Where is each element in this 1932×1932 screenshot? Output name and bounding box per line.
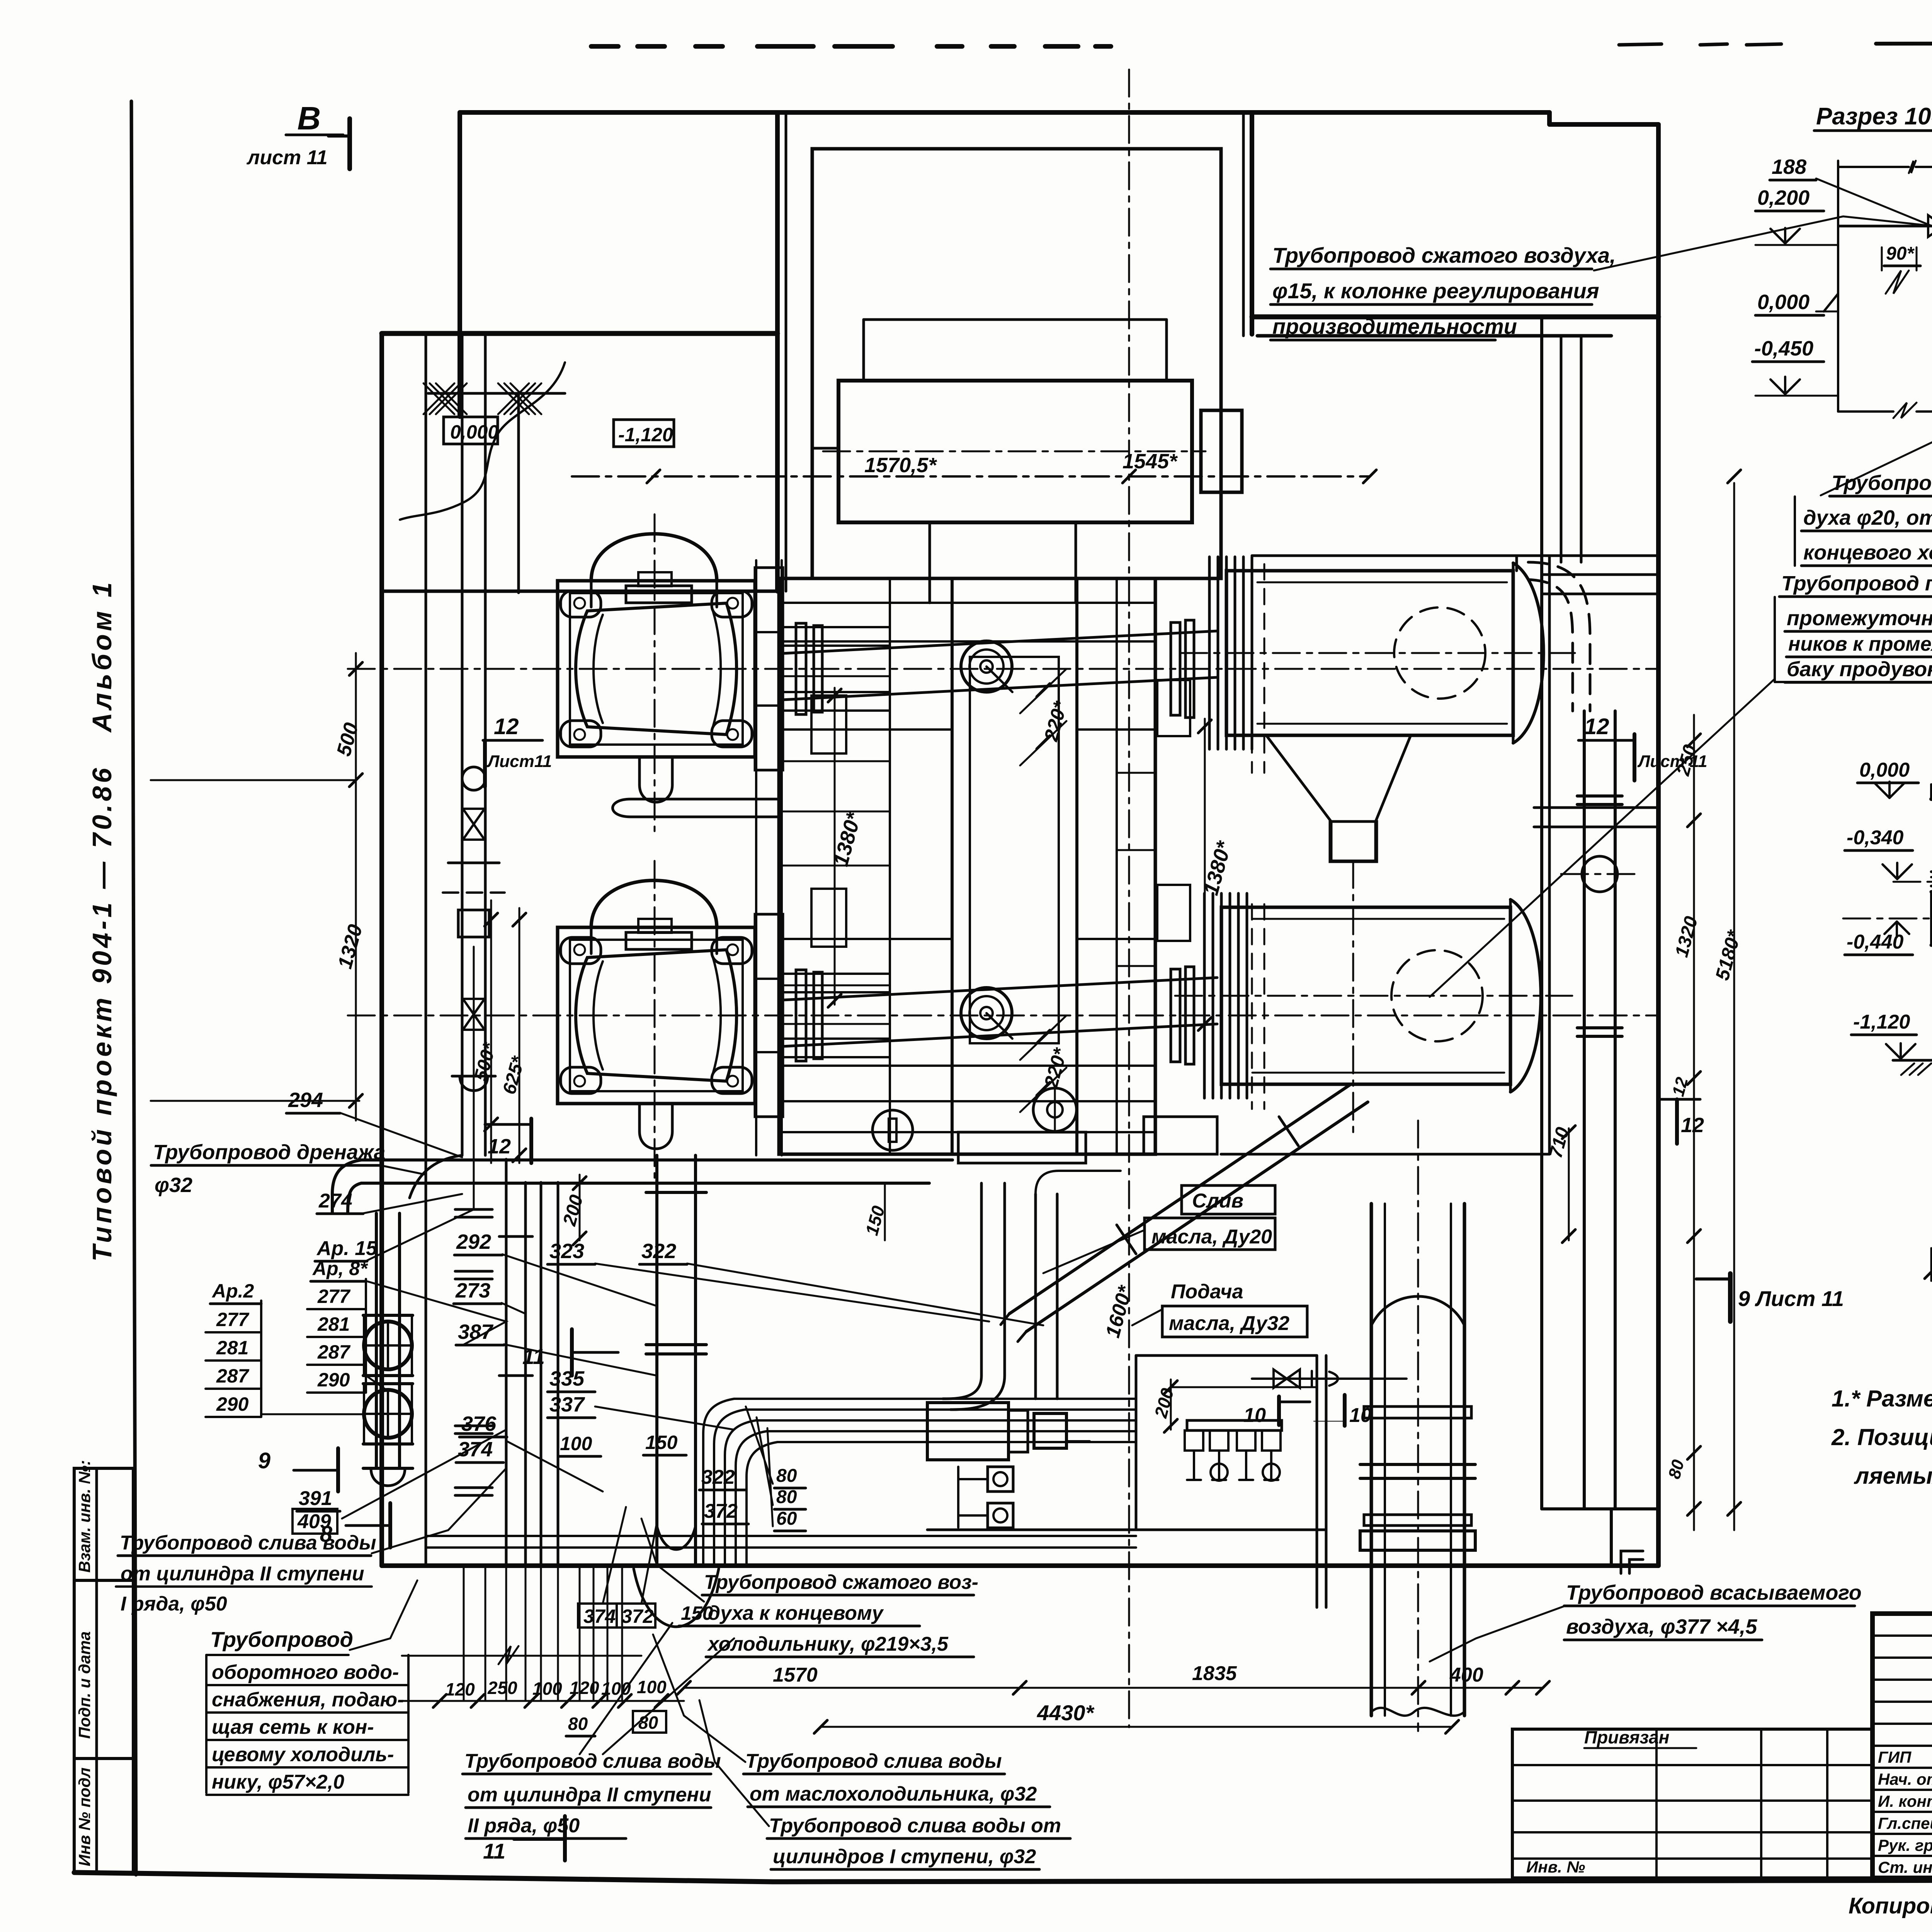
attached table привязан xyxy=(1512,1729,1872,1878)
cylinder 2 vertical centerline xyxy=(654,861,656,1178)
hatch square corner 2 xyxy=(498,383,529,414)
svg-text:294: 294 xyxy=(288,1088,323,1112)
svg-text:80: 80 xyxy=(776,1487,797,1507)
dim 500* / 625* cylinder2 xyxy=(490,900,492,1163)
left dim vertical line xyxy=(355,653,357,1121)
crankcase small covers xyxy=(811,696,846,753)
bottom wall pipe run xyxy=(426,1535,1136,1537)
section mark B top-left xyxy=(347,119,352,169)
svg-text:Разрез 10-10: Разрез 10-10 xyxy=(1816,103,1932,130)
svg-text:духа φ20, отбор после: духа φ20, отбор после xyxy=(1803,506,1932,529)
main horizontal pipe run lower-left xyxy=(361,1158,952,1162)
svg-text:Подп. и дата: Подп. и дата xyxy=(75,1631,94,1739)
compressor cylinder 1 dome xyxy=(591,534,717,581)
big center vertical pipe with flanges xyxy=(655,1155,658,1566)
section mark 12 left lower xyxy=(485,1123,531,1126)
10-10 top line with break xyxy=(1838,166,1909,168)
svg-text:1570: 1570 xyxy=(773,1664,818,1686)
leaders from 374/372 box xyxy=(603,1507,626,1604)
oil pump coupling xyxy=(1066,1419,1090,1422)
svg-text:Взам. инв. №:: Взам. инв. №: xyxy=(75,1460,94,1573)
bay centerline vertical xyxy=(1128,70,1130,578)
suction pipe bottom break xyxy=(1371,1708,1464,1716)
svg-text:Ст. инж: Ст. инж xyxy=(1878,1858,1932,1876)
svg-text:оборотного водо-: оборотного водо- xyxy=(212,1661,399,1684)
svg-text:4430*: 4430* xyxy=(1037,1701,1095,1725)
svg-text:Нач. отд: Нач. отд xyxy=(1878,1770,1932,1788)
piston rod 1 xyxy=(783,631,1217,653)
rod big flange circles 2 xyxy=(961,988,1012,1039)
svg-text:1545*: 1545* xyxy=(1122,450,1178,473)
plan top-right corner step xyxy=(1547,112,1552,124)
svg-text:Трубопровод сжатого воз-: Трубопровод сжатого воз- xyxy=(1832,471,1932,495)
annotation A3 leader to vessel xyxy=(1430,679,1775,997)
section mark 8 left xyxy=(388,1503,392,1548)
svg-text:промежуточных холодиль-: промежуточных холодиль- xyxy=(1787,607,1932,630)
section mark 11 upper xyxy=(570,1329,574,1376)
compressor cylinder 1 top hatch cover xyxy=(626,586,692,603)
left pipes flange ticks xyxy=(455,1208,492,1211)
sheet frame bottom border line xyxy=(74,1872,1932,1882)
big flanged valve circle 1 xyxy=(364,1321,412,1369)
vessel2 diagonal blowdown pipe xyxy=(1009,1084,1351,1314)
left dim extension lines xyxy=(348,668,356,670)
svg-text:Слив: Слив xyxy=(1192,1190,1243,1212)
compressor cylinder 2 bottom neck xyxy=(638,1104,641,1131)
section mark 11 lower xyxy=(563,1816,567,1861)
crankcase internal lines xyxy=(779,602,1155,604)
plan inner wall line left y1530 xyxy=(382,590,777,593)
cylinder 1 axis centerline xyxy=(348,668,1658,670)
svg-text:Трубопровод всасываемого: Трубопровод всасываемого xyxy=(1566,1581,1862,1604)
pipe bundle left elbows xyxy=(703,1399,734,1566)
cylinder 2 pad bolts xyxy=(574,944,585,955)
left piping extra verticals xyxy=(540,1182,543,1566)
svg-text:100: 100 xyxy=(560,1433,592,1454)
10-10 grid vertical lines xyxy=(1837,161,1839,412)
annotation A12 leader xyxy=(653,1634,745,1762)
svg-text:баку продувок φ25: баку продувок φ25 xyxy=(1787,658,1932,681)
svg-text:400: 400 xyxy=(1449,1664,1483,1686)
right duct flanges xyxy=(1577,794,1622,798)
label 409 boxed xyxy=(293,1509,337,1534)
compressor cylinder 2 mounting frame xyxy=(558,927,755,1104)
svg-text:ГИП: ГИП xyxy=(1878,1748,1912,1766)
bay inner double verticals xyxy=(785,112,787,591)
svg-text:ников к промежуточному: ников к промежуточному xyxy=(1788,633,1932,655)
svg-text:Копировал Полищук .: Копировал Полищук . xyxy=(1849,1893,1932,1918)
armature leaders xyxy=(367,1281,506,1345)
vessel1 cone axis xyxy=(1352,861,1354,1132)
10-10 bottom line xyxy=(1838,410,1893,413)
svg-text:-0,450: -0,450 xyxy=(1754,337,1813,360)
svg-text:концевого холодильника: концевого холодильника xyxy=(1803,541,1932,564)
11-11 left pipe stub xyxy=(1931,890,1932,894)
compressor cylinder 2 body xyxy=(576,950,736,1081)
cylinder 1 pad bolts xyxy=(574,598,585,609)
svg-text:281: 281 xyxy=(216,1337,248,1359)
compressor cylinder 2 corner pads xyxy=(561,937,601,964)
crosshead guide rails cylinder 2 xyxy=(755,914,783,1117)
10-10 pipe horizontal xyxy=(1839,225,1932,228)
svg-text:Инв. №: Инв. № xyxy=(1526,1858,1585,1876)
left drain valve vertical pipe xyxy=(375,1213,378,1468)
svg-text:от маслохолодильника, φ32: от маслохолодильника, φ32 xyxy=(750,1783,1037,1805)
oil filters xyxy=(988,1467,1013,1492)
intercooler vessel 2 internal dashed circle xyxy=(1391,950,1483,1041)
plan left lower wall inner xyxy=(425,333,427,1566)
svg-text:Трубопровод сжатого воз-: Трубопровод сжатого воз- xyxy=(704,1571,978,1594)
right duct valve circle xyxy=(1582,856,1617,892)
right dim chain outer 5180 xyxy=(1733,483,1735,1530)
svg-text:масла, Ду32: масла, Ду32 xyxy=(1169,1312,1289,1335)
bottom dim line 4430 xyxy=(821,1726,1452,1728)
svg-text:120: 120 xyxy=(570,1678,599,1698)
receiver rect xyxy=(838,381,1192,522)
annotation φ15 leader to section 10-10 xyxy=(1594,216,1932,270)
svg-text:масла, Ду20: масла, Ду20 xyxy=(1151,1226,1272,1248)
svg-text:Инв № подл: Инв № подл xyxy=(75,1767,94,1866)
svg-text:щая сеть к кон-: щая сеть к кон- xyxy=(212,1716,374,1738)
annotation A13 leader xyxy=(699,1700,769,1826)
svg-text:10: 10 xyxy=(1349,1404,1372,1427)
dim 200 oil skid xyxy=(1170,1379,1172,1430)
svg-text:188: 188 xyxy=(1772,155,1806,179)
crankcase long guide channel xyxy=(755,560,757,1155)
suction pipe top break arc xyxy=(1371,1296,1464,1325)
cylinder 2 inner frame rect xyxy=(570,940,743,1091)
plan top wall xyxy=(460,110,1549,115)
label Слив масла Ду20 boxed xyxy=(1182,1185,1275,1214)
crankcase left small circle xyxy=(872,1110,913,1150)
top dim line 1570,5 / 1545 xyxy=(572,475,1370,478)
svg-text:391: 391 xyxy=(299,1487,332,1510)
cylinder 2 valve cap top xyxy=(638,919,672,933)
svg-text:Привязан: Привязан xyxy=(1584,1727,1669,1747)
svg-text:Лист11: Лист11 xyxy=(486,752,552,771)
rod flange pair 2 xyxy=(796,970,806,1061)
suction pipe main vertical xyxy=(1370,1204,1373,1716)
svg-text:277: 277 xyxy=(216,1309,250,1330)
svg-text:292: 292 xyxy=(456,1230,491,1253)
svg-text:372: 372 xyxy=(621,1605,654,1627)
svg-text:12: 12 xyxy=(1584,714,1609,739)
annotation A9 leader xyxy=(372,1468,506,1553)
10-10 leader to A2 annotation xyxy=(1821,417,1932,495)
oil manifold bar xyxy=(1187,1420,1282,1430)
svg-text:-0,440: -0,440 xyxy=(1847,931,1904,953)
crankcase bottom blocks xyxy=(958,1132,1086,1163)
svg-text:Гл.спец: Гл.спец xyxy=(1878,1814,1932,1832)
section mark 9 left xyxy=(336,1448,340,1492)
section marks 10 xyxy=(1277,1396,1281,1425)
svg-text:II ряда, φ50: II ряда, φ50 xyxy=(468,1815,580,1837)
annotation A15 leader xyxy=(1430,1605,1566,1662)
suction pipe couplings xyxy=(1364,1406,1471,1418)
compressor cylinder 2 dome xyxy=(591,881,717,928)
oil pump motor xyxy=(927,1403,1009,1460)
svg-text:322: 322 xyxy=(701,1466,735,1488)
cylinder 1 vertical centerline xyxy=(654,514,656,831)
svg-text:Трубопровод: Трубопровод xyxy=(210,1627,353,1651)
svg-text:-1,120: -1,120 xyxy=(618,424,673,446)
plan bottom wall xyxy=(382,1563,1658,1568)
11-11 ground line xyxy=(1893,1059,1932,1062)
svg-text:374: 374 xyxy=(583,1605,616,1627)
svg-text:337: 337 xyxy=(549,1393,585,1416)
valve column vertical pipe left xyxy=(461,336,464,1155)
receiver right flange box xyxy=(1201,410,1242,492)
plan bottom-right step xyxy=(1542,1507,1658,1510)
margin stamp box Подп. и дата xyxy=(74,1580,133,1759)
title block outer box xyxy=(1872,1614,1932,1878)
compressor cylinder 1 mounting frame xyxy=(558,581,755,757)
plan inner right wall xyxy=(1540,317,1543,1509)
vertical pipe 292 bundle xyxy=(505,1182,508,1566)
10-10 leader 188 to valve xyxy=(1816,179,1932,226)
right vertical duct pipe xyxy=(1583,711,1586,1509)
rod flange pair 1 xyxy=(796,623,806,714)
cylinder 1 inner frame rect xyxy=(570,593,743,745)
svg-text:2. Позиции оборудования и: 2. Позиции оборудования и комплектуемых … xyxy=(1831,1424,1932,1450)
svg-text:11: 11 xyxy=(483,1839,505,1863)
valve column fittings xyxy=(462,767,485,790)
level box -1,120 xyxy=(614,420,674,447)
svg-text:372: 372 xyxy=(704,1500,738,1522)
bottom dim line 1570/1835/400 xyxy=(684,1687,1543,1689)
dim line oil skid horizontal xyxy=(1171,1386,1317,1388)
svg-text:1.* Размеры для справок: 1.* Размеры для справок xyxy=(1832,1386,1932,1412)
vertical pipe pair from corridor band xyxy=(1560,336,1563,562)
svg-text:9: 9 xyxy=(258,1448,270,1473)
svg-text:воздуха, φ377 ×4,5: воздуха, φ377 ×4,5 xyxy=(1566,1615,1757,1638)
upper dim line with break below plan xyxy=(402,1655,641,1657)
svg-text:производительности: производительности xyxy=(1272,314,1517,338)
svg-text:I ряда, φ50: I ряда, φ50 xyxy=(121,1593,227,1615)
annotation A8 leader xyxy=(381,1165,426,1175)
svg-text:0,000: 0,000 xyxy=(1757,291,1810,314)
break wavy line upper-left xyxy=(400,362,565,520)
svg-text:322: 322 xyxy=(641,1240,676,1263)
svg-text:-0,340: -0,340 xyxy=(1847,827,1904,849)
svg-text:от цилиндра II ступени: от цилиндра II ступени xyxy=(468,1784,711,1806)
svg-text:ляемых Пензенским компрессор: ляемых Пензенским компрессорным заводом,… xyxy=(1854,1463,1932,1489)
intercooler vessel 1 shell lines xyxy=(1257,582,1507,583)
intercooler vessel 2 left flange stack xyxy=(1203,893,1206,1098)
crankcase center small circle xyxy=(1033,1088,1077,1131)
intercooler vessel 1 axis xyxy=(1180,652,1575,654)
svg-text:нику, φ57×2,0: нику, φ57×2,0 xyxy=(212,1771,344,1793)
bay inner chamber rect xyxy=(812,149,1221,578)
rod dim ticks 220 2 xyxy=(1037,1030,1050,1043)
right side horizontal pipes to wall xyxy=(1542,573,1658,576)
svg-text:90*: 90* xyxy=(1886,243,1915,264)
intercooler vessel 1 internal dashed circle xyxy=(1394,607,1485,699)
svg-text:Подача: Подача xyxy=(1171,1281,1243,1303)
svg-text:Ар. 15: Ар. 15 xyxy=(316,1237,378,1260)
plan inner wall line right y1438 xyxy=(1252,554,1658,557)
cylinder 2 body inner arcs xyxy=(594,961,603,1070)
section mark 12 right lower xyxy=(1658,1098,1700,1101)
svg-text:0,200: 0,200 xyxy=(1757,186,1810,209)
svg-text:Рук. гр.: Рук. гр. xyxy=(1878,1836,1932,1854)
section mark 9 Лист 11 xyxy=(1728,1274,1733,1321)
level box 0,000 xyxy=(444,417,498,444)
vessel1 top right pipe dashed bend xyxy=(1515,556,1518,571)
oil manifold blocks and bolts xyxy=(1185,1430,1203,1451)
svg-text:Трубопровод слива воды: Трубопровод слива воды xyxy=(120,1532,376,1554)
svg-text:Трубопровод слива воды от: Трубопровод слива воды от xyxy=(769,1815,1061,1837)
plan right wall xyxy=(1656,124,1661,1566)
svg-text:φ15, к колонке регулирования: φ15, к колонке регулирования xyxy=(1272,279,1599,303)
svg-text:290: 290 xyxy=(216,1393,249,1415)
svg-text:1835: 1835 xyxy=(1192,1662,1237,1685)
crankcase ribs xyxy=(779,675,890,677)
10-10 valve xyxy=(1928,215,1932,237)
cylinder 2 axis centerline xyxy=(348,1015,1658,1017)
svg-text:274: 274 xyxy=(318,1190,352,1212)
svg-text:120: 120 xyxy=(445,1679,475,1699)
svg-text:9 Лист 11: 9 Лист 11 xyxy=(1738,1286,1844,1311)
svg-text:духа к концевому: духа к концевому xyxy=(708,1602,884,1624)
center pipe bottom break arc xyxy=(657,1526,696,1549)
pipe 322 top elbow xyxy=(1036,1171,1059,1194)
10-10 break squiggle xyxy=(1886,270,1909,294)
intercooler vessel 2 body xyxy=(1221,907,1510,1084)
vertical pipe 323 xyxy=(980,1183,983,1376)
pipe bundle horizontal lines xyxy=(734,1398,1136,1400)
cylinder 1 body inner arcs xyxy=(594,615,603,723)
plan left lower wall outer xyxy=(379,333,384,1566)
intercooler vessel 1 left flange stack xyxy=(1208,557,1211,749)
intercooler vessel 2 axis xyxy=(1175,995,1572,997)
svg-text:290: 290 xyxy=(317,1369,350,1391)
right dim chain inner xyxy=(1693,715,1695,1530)
svg-text:80: 80 xyxy=(638,1713,658,1733)
svg-text:80: 80 xyxy=(776,1466,797,1486)
compressor cylinder 1 corner pads xyxy=(561,591,601,617)
svg-text:10: 10 xyxy=(1243,1404,1266,1427)
intercooler vessel 1 right head xyxy=(1513,563,1544,743)
oil skid boundary xyxy=(1136,1354,1317,1357)
svg-text:273: 273 xyxy=(455,1279,490,1302)
svg-text:И. контр: И. контр xyxy=(1878,1792,1932,1810)
svg-text:Типовой проект 904-1 — 70.8: Типовой проект 904-1 — 70.86 xyxy=(87,765,117,1262)
sheet frame top border line xyxy=(1876,43,1932,44)
plan wall band left horizontal xyxy=(382,331,777,336)
annotation A10 leader xyxy=(350,1580,417,1650)
11-11 top slab line xyxy=(1931,797,1932,801)
compressor cylinder 1 body xyxy=(576,603,736,735)
svg-text:250: 250 xyxy=(487,1678,517,1698)
plan bay column right xyxy=(1250,112,1254,334)
rod big flange circles 1 xyxy=(961,641,1012,692)
intercooler vessel 1 body xyxy=(1226,571,1513,735)
svg-text:Трубопровод продувки от: Трубопровод продувки от xyxy=(1781,572,1932,595)
compressor cylinder 1 bottom neck xyxy=(638,757,641,785)
receiver inner step left xyxy=(812,447,838,450)
big flanged valve circle 2 xyxy=(364,1390,412,1438)
elbow from valve column to drain xyxy=(410,1155,462,1198)
svg-text:снабжения, подаю-: снабжения, подаю- xyxy=(212,1689,404,1711)
dim 200 lower-left xyxy=(579,1175,581,1240)
piston rod 2 xyxy=(783,978,1217,1000)
svg-text:цилиндров I ступени, φ32: цилиндров I ступени, φ32 xyxy=(773,1845,1036,1868)
svg-text:Альбом 1: Альбом 1 xyxy=(87,579,117,733)
svg-text:Трубопровод слива воды: Трубопровод слива воды xyxy=(745,1750,1002,1772)
vessel1 bottom cone xyxy=(1266,735,1411,861)
receiver inner centerline xyxy=(823,451,1206,452)
svg-text:лист 11: лист 11 xyxy=(246,146,328,169)
svg-text:цевому холодиль-: цевому холодиль- xyxy=(212,1743,394,1766)
crankcase inner column xyxy=(952,578,1077,1154)
svg-text:150: 150 xyxy=(645,1432,678,1453)
svg-text:374: 374 xyxy=(458,1438,493,1461)
svg-text:287: 287 xyxy=(317,1341,351,1363)
svg-text:Трубопровод слива воды: Трубопровод слива воды xyxy=(464,1750,721,1772)
vessel anchor dashed channels xyxy=(1251,564,1253,773)
margin stamp box Инв № подл xyxy=(74,1759,133,1872)
drain pipe bottom cap xyxy=(363,1467,413,1470)
svg-text:80: 80 xyxy=(568,1714,588,1734)
svg-text:409: 409 xyxy=(297,1510,331,1533)
small dim row 120 250 100 120 100 100 xyxy=(402,1700,684,1702)
intercooler vessel 2 shell lines xyxy=(1252,918,1504,920)
11-11 upper pipe band xyxy=(1931,871,1932,873)
svg-text:Ар.2: Ар.2 xyxy=(211,1280,254,1302)
11-11 bottom dim line xyxy=(1931,1271,1932,1273)
vessel2 diagonal pipe flange ticks xyxy=(1279,1117,1298,1146)
rod dim ticks 220 1 xyxy=(1037,684,1050,697)
svg-text:287: 287 xyxy=(216,1365,250,1387)
hatch square corner 1 xyxy=(423,383,454,414)
annotation A11 leaders xyxy=(580,1623,672,1754)
svg-text:281: 281 xyxy=(317,1313,350,1335)
svg-text:376: 376 xyxy=(461,1412,497,1435)
svg-text:12: 12 xyxy=(488,1135,511,1158)
plan wall band right horizontal double xyxy=(1252,315,1658,320)
svg-text:В: В xyxy=(297,100,321,136)
main pipe left elbow down xyxy=(332,1160,361,1213)
svg-text:60: 60 xyxy=(776,1509,797,1529)
extension pipe lines below plan wall xyxy=(463,1567,465,1700)
leader 391/409 xyxy=(342,1430,506,1519)
vertical pipe 322 xyxy=(1034,1194,1037,1399)
svg-text:0,000: 0,000 xyxy=(1859,759,1910,781)
top edge dashed scan marks xyxy=(591,44,618,49)
svg-text:12: 12 xyxy=(1681,1114,1704,1137)
svg-text:0,000: 0,000 xyxy=(450,421,498,443)
foundation right outline xyxy=(1548,556,1551,1154)
annotation A14 leader xyxy=(641,1519,704,1602)
label Ар.8 leader to valve2 xyxy=(366,1376,388,1391)
crosshead guide rails cylinder 1 xyxy=(755,568,783,770)
bay inner shelf lines xyxy=(864,318,1167,321)
svg-text:277: 277 xyxy=(317,1286,351,1307)
svg-text:от цилиндра II ступени: от цилиндра II ступени xyxy=(121,1563,364,1585)
suction pipe axis xyxy=(1417,1121,1419,1731)
small elbow pipe bottom right xyxy=(1621,1551,1643,1573)
labels 374 372 boxed bottom xyxy=(578,1604,655,1628)
margin stamp box Взам. инв. № xyxy=(74,1468,133,1580)
plan left upper wall xyxy=(457,112,462,417)
svg-text:12: 12 xyxy=(494,714,519,739)
title block left table rows xyxy=(1872,1634,1932,1637)
inter-cylinder pipe xyxy=(631,798,779,801)
svg-text:холодильнику, φ219×3,5: холодильнику, φ219×3,5 xyxy=(707,1633,949,1655)
svg-text:φ32: φ32 xyxy=(155,1173,192,1197)
intercooler vessel 2 right head xyxy=(1510,900,1541,1092)
